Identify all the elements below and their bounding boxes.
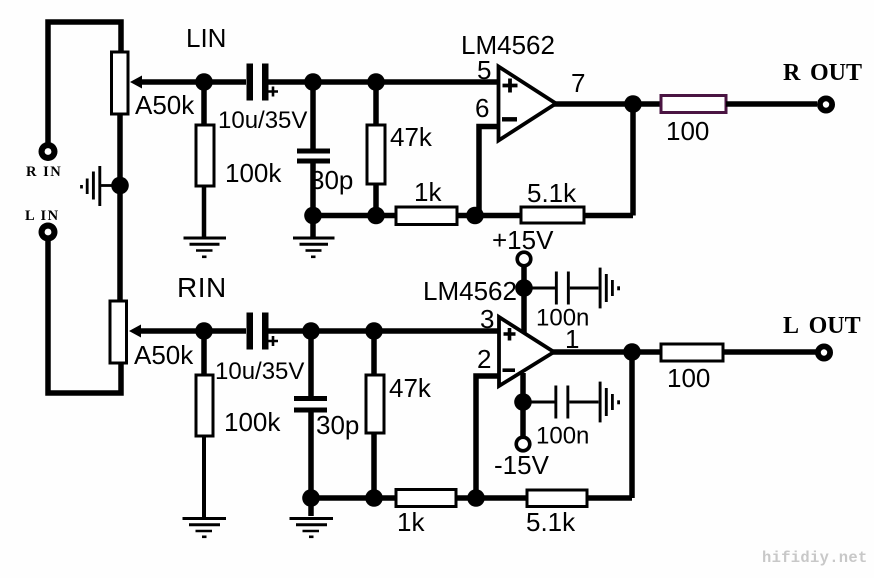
svg-text:LM4562: LM4562	[423, 276, 517, 306]
junction at inverting node (bottom)	[467, 489, 485, 507]
svg-text:LM4562: LM4562	[461, 30, 555, 60]
junction at output node (bottom)	[623, 343, 641, 361]
terminal R OUT	[817, 96, 835, 114]
svg-text:hifidiy.net: hifidiy.net	[762, 549, 868, 567]
wire: -15V node to bypass cap C6	[523, 401, 555, 404]
wire: 1k to junction to 5.1k	[457, 213, 521, 219]
wire: 1k to junction to 5.1k (bottom)	[456, 495, 527, 501]
ground under C2	[293, 238, 335, 257]
op-amp U1B LM4562	[499, 317, 554, 386]
svg-text:A50k: A50k	[134, 340, 194, 370]
junction on rail at 100k R6	[195, 322, 213, 340]
junction bottom rail at R7	[365, 489, 383, 507]
ground under C4	[290, 519, 334, 537]
wire: L IN down and over to bottom of pot RP2	[48, 241, 121, 393]
wire: 100 to R OUT	[726, 101, 817, 107]
wire: C1 to op-amp pin 5	[268, 79, 499, 85]
capacitor C3 10u/35V	[247, 313, 279, 350]
svg-text:-15V: -15V	[494, 450, 550, 480]
resistor R1 100k	[196, 82, 214, 238]
wire: 5.1k right to feedback vertical	[584, 213, 633, 219]
svg-text:LIN: LIN	[186, 23, 226, 53]
terminal +15V	[517, 252, 531, 266]
resistor R10 100	[661, 344, 723, 361]
capacitor C4 30p	[294, 331, 327, 516]
wire: V- pin down to -15V	[520, 373, 526, 437]
svg-text:10u/35V: 10u/35V	[215, 358, 304, 385]
junction at output node (top)	[624, 95, 642, 113]
wire: 100 to L OUT	[723, 349, 816, 355]
svg-text:7: 7	[571, 68, 585, 98]
junction on rail at 47k R2	[367, 73, 385, 91]
ground (right-pointing) for C6	[600, 382, 619, 423]
wire: bottom rail of top channel	[313, 213, 397, 219]
resistor R9 5.1k	[527, 490, 587, 507]
wire: top rail (wiper to C1)	[140, 79, 246, 85]
ground (right-pointing) for C5	[600, 268, 619, 309]
ground under R6	[183, 519, 227, 537]
junction bottom rail at C2	[304, 207, 322, 225]
wire: op-amp output to 100 ohm (top)	[553, 101, 661, 107]
wire: C3 to op-amp pin 3	[268, 328, 498, 334]
svg-text:100n: 100n	[536, 423, 589, 450]
svg-text:47k: 47k	[389, 373, 432, 403]
resistor R8 1k	[396, 490, 456, 507]
svg-text:3: 3	[480, 304, 494, 334]
svg-text:R OUT: R OUT	[783, 60, 862, 86]
wiper arrow RP2	[129, 325, 141, 338]
junction on rail at 30p C2	[304, 73, 322, 91]
junction at pot divider	[111, 177, 129, 195]
svg-text:10u/35V: 10u/35V	[218, 107, 307, 134]
wire: bottom rail (wiper to C3)	[139, 328, 246, 334]
wire: 5.1k right to feedback vertical (bottom)	[587, 495, 632, 501]
svg-text:2: 2	[477, 344, 491, 374]
svg-text:100k: 100k	[224, 407, 281, 437]
potentiometer RP1 A50k	[112, 52, 129, 114]
svg-text:30p: 30p	[310, 165, 353, 195]
wire: op-amp output to 100 ohm (bottom)	[551, 349, 661, 355]
wire: pot RP1 bottom to pot RP2 top	[117, 112, 123, 302]
resistor R5 100 (purple)	[661, 96, 726, 113]
resistor R2 47k	[367, 82, 385, 215]
terminal R IN	[39, 142, 58, 161]
terminal L OUT	[815, 344, 833, 362]
svg-text:30p: 30p	[316, 410, 359, 440]
junction at inverting node (top)	[466, 207, 484, 225]
wire: feedback vertical from output (bottom)	[629, 352, 635, 498]
junction bottom rail at C4	[302, 489, 320, 507]
wire: +15V node to bypass cap C5	[524, 287, 555, 290]
wiper arrow RP1	[130, 76, 142, 89]
terminal -15V	[516, 437, 530, 451]
svg-text:L IN: L IN	[25, 208, 60, 224]
svg-text:1k: 1k	[397, 507, 425, 537]
svg-text:L OUT: L OUT	[783, 313, 861, 339]
svg-text:5.1k: 5.1k	[527, 178, 577, 208]
svg-text:100: 100	[667, 363, 710, 393]
svg-text:100: 100	[666, 116, 709, 146]
wire: feedback vertical from output (top)	[630, 104, 636, 216]
ground under R1	[184, 238, 227, 257]
wire: R IN up and over to top of pot RP1	[48, 22, 121, 143]
wire: +15V to V+ pin	[521, 266, 527, 333]
junction at +15V node	[515, 279, 533, 297]
wire: stub to left ground	[100, 184, 114, 187]
terminal L IN	[39, 223, 58, 242]
capacitor C6 100n	[554, 386, 598, 419]
svg-text:R IN: R IN	[26, 164, 62, 180]
junction at -15V node	[514, 393, 532, 411]
junction on rail at 47k R7	[365, 322, 383, 340]
svg-text:1k: 1k	[414, 177, 442, 207]
wire: pin 6 to inverting node	[479, 127, 499, 216]
resistor R3 1k	[396, 207, 457, 225]
svg-text:100k: 100k	[225, 158, 282, 188]
resistor R6 100k	[196, 331, 213, 517]
svg-text:6: 6	[475, 93, 489, 123]
wire: bottom rail of bottom channel	[311, 495, 397, 501]
junction on rail at 30p C4	[302, 322, 320, 340]
svg-text:5: 5	[477, 55, 491, 85]
junction on top rail at 100k R1	[195, 73, 213, 91]
svg-text:A50k: A50k	[135, 90, 195, 120]
svg-text:47k: 47k	[390, 122, 433, 152]
resistor R7 47k	[366, 331, 384, 498]
capacitor C1 10u/35V	[247, 64, 279, 101]
potentiometer RP2 A50k	[110, 301, 127, 363]
junction bottom rail at R2	[367, 207, 385, 225]
resistor R4 5.1k	[521, 207, 584, 223]
wire: pin 2 to inverting node	[476, 376, 499, 498]
svg-text:RIN: RIN	[177, 272, 227, 303]
ground (left-pointing) at pot divider	[82, 166, 100, 206]
svg-text:100n: 100n	[536, 305, 589, 332]
capacitor C2 30p	[297, 82, 330, 238]
capacitor C5 100n	[555, 272, 599, 305]
svg-text:5.1k: 5.1k	[526, 507, 576, 537]
op-amp U1A LM4562	[499, 67, 557, 141]
